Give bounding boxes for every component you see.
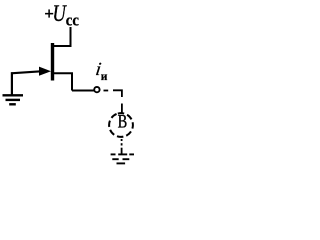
svg-text:В: В [118, 111, 128, 132]
gate wire [11, 71, 41, 73]
wire gate to ground vertical [11, 72, 13, 95]
voltmeter bottom lead dash 2 [121, 143, 123, 145]
wire drain vertical to +Ucc [70, 27, 72, 46]
svg-text:и: и [101, 71, 108, 83]
transistor VT1 channel bar [51, 43, 54, 81]
label i_и [94, 59, 107, 83]
dashed wire vertical to voltmeter [121, 104, 123, 114]
ground bottom (dashed) bottom line [117, 162, 126, 164]
dashed wire segment after terminal [104, 90, 109, 92]
voltmeter circle (dashed) [106, 110, 135, 139]
source wire horizontal to terminal [72, 90, 94, 92]
voltmeter bottom lead dash 3 [121, 148, 123, 154]
ground bottom (dashed) top line [111, 153, 134, 155]
terminal node circle [94, 87, 99, 92]
wire drain horizontal [53, 45, 72, 47]
voltmeter bottom lead dash 1 [121, 139, 123, 141]
svg-text:сс: сс [66, 12, 79, 30]
source wire vertical [71, 73, 73, 90]
gate arrow [39, 67, 51, 76]
supply label +Ucc [44, 0, 79, 30]
dashed wire corner segment [113, 90, 122, 97]
ground left [3, 95, 24, 104]
source wire horizontal from bar [53, 72, 73, 74]
ground bottom (dashed) middle line [112, 158, 129, 160]
